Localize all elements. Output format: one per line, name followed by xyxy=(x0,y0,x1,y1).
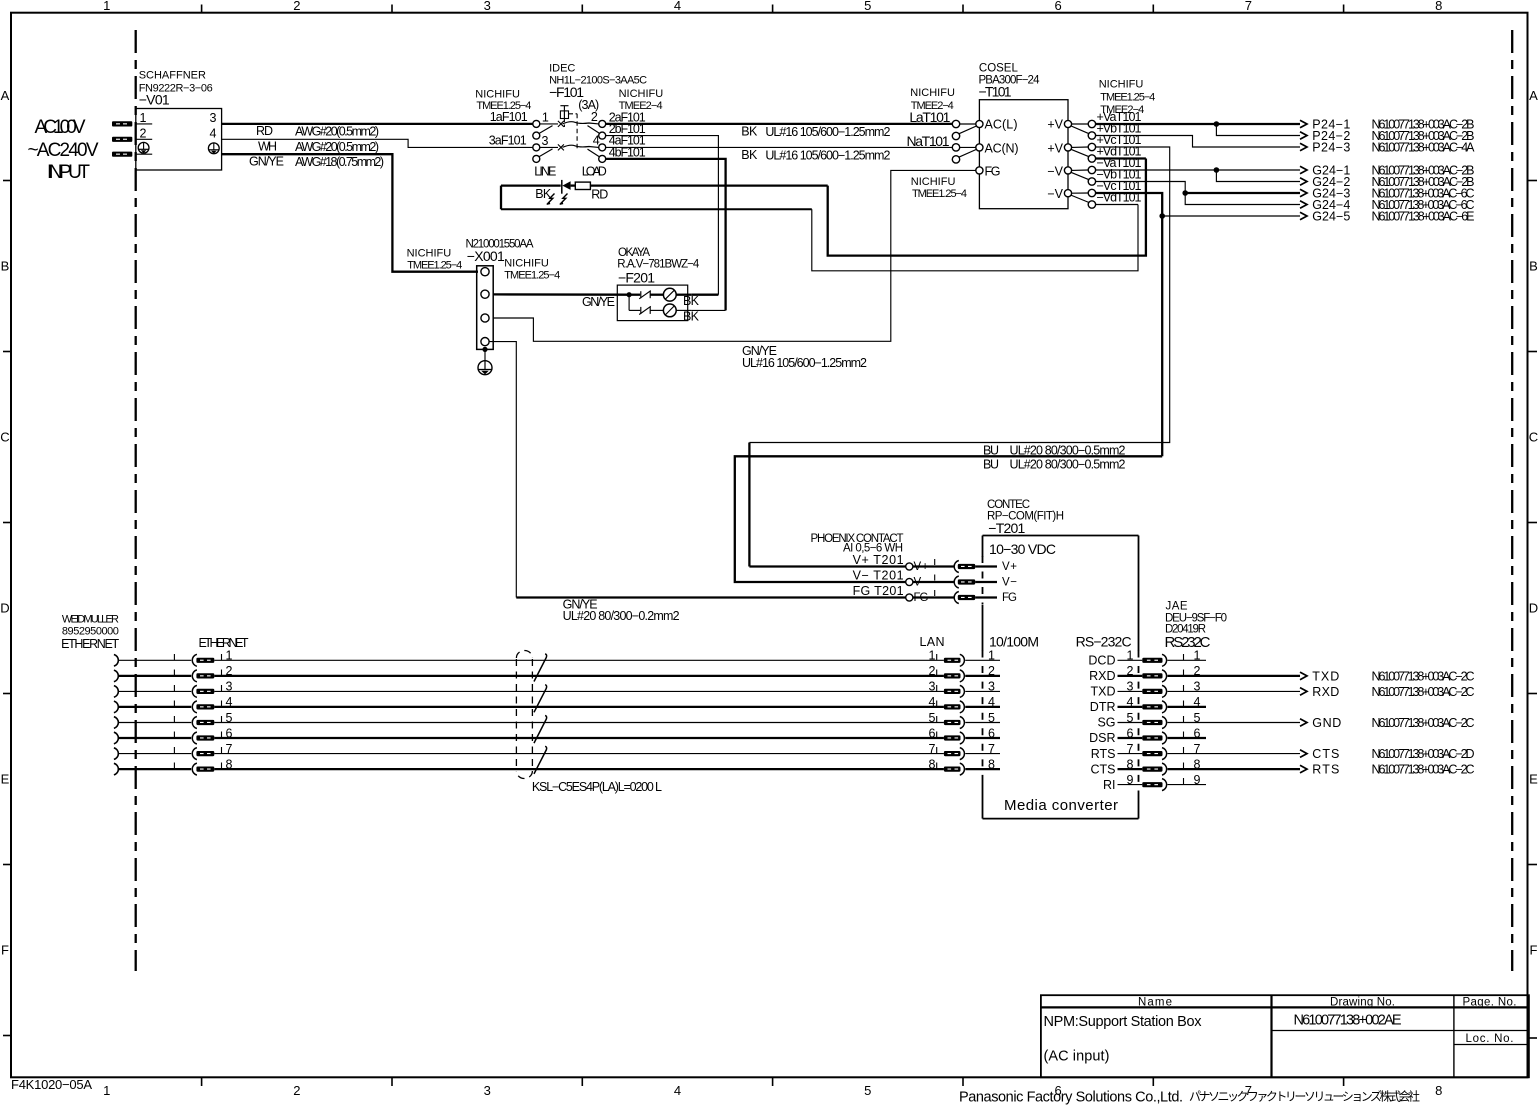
svg-text:RS−232C: RS−232C xyxy=(1076,634,1132,650)
svg-text:2: 2 xyxy=(988,664,995,678)
svg-text:RD: RD xyxy=(256,124,273,138)
node F201 input xyxy=(627,292,632,297)
svg-text:3: 3 xyxy=(210,111,217,125)
svg-text:F4K1020−05A: F4K1020−05A xyxy=(11,1077,92,1092)
wire RTS out xyxy=(1168,768,1301,770)
svg-text:2: 2 xyxy=(293,0,300,13)
svg-text:N610077138+002AE: N610077138+002AE xyxy=(1294,1013,1402,1029)
svg-text:UL#16 105/600−1.25mm2: UL#16 105/600−1.25mm2 xyxy=(742,356,867,370)
svg-text:UL#16 105/600−1.25mm2: UL#16 105/600−1.25mm2 xyxy=(765,148,890,162)
wire -VaT101 to G24-1 xyxy=(1096,169,1300,171)
node G24-3 xyxy=(1182,190,1188,196)
label NICHIFU TMEE1.25-4 at FG xyxy=(911,176,967,200)
wire 2aF101 to LaT101 (BK) xyxy=(606,110,953,139)
svg-text:−F201: −F201 xyxy=(618,270,655,286)
svg-text:DSR: DSR xyxy=(1089,731,1115,745)
svg-text:NICHIFU: NICHIFU xyxy=(911,176,956,188)
svg-text:C: C xyxy=(1529,430,1538,445)
svg-text:E: E xyxy=(1,772,10,787)
svg-text:AC(N): AC(N) xyxy=(985,141,1019,155)
svg-text:IDEC: IDEC xyxy=(549,63,575,75)
svg-text:1: 1 xyxy=(140,111,147,125)
media converter T201 xyxy=(983,499,1139,819)
wire lamp to +VdT101 xyxy=(828,159,1146,256)
node G24-1/G24-2 xyxy=(1214,167,1220,173)
terminal NaT101 xyxy=(907,133,977,163)
RS232 output labels xyxy=(1312,669,1474,776)
ethernet connector WEIDMULLER xyxy=(61,614,249,652)
svg-text:3: 3 xyxy=(484,0,491,13)
svg-text:INPUT: INPUT xyxy=(47,162,90,183)
svg-text:NaT101: NaT101 xyxy=(907,133,950,149)
wire CTS out xyxy=(1168,753,1301,755)
wire X001 pin3 to T101 FG (GN/YE) xyxy=(493,170,976,369)
wire lamp return to -VdT101 xyxy=(812,205,1138,271)
wire -VcT101 to V- (BU) xyxy=(735,193,1162,582)
svg-text:−X001: −X001 xyxy=(467,248,505,264)
power supply T101 xyxy=(976,63,1072,209)
svg-text:1aF101: 1aF101 xyxy=(490,110,528,124)
svg-text:B: B xyxy=(1,259,10,274)
svg-text:B: B xyxy=(1529,259,1538,274)
svg-text:3: 3 xyxy=(484,1083,491,1098)
svg-text:1: 1 xyxy=(929,649,936,663)
svg-text:RXD: RXD xyxy=(1312,685,1339,699)
svg-text:COSEL: COSEL xyxy=(979,63,1019,75)
svg-text:CTS: CTS xyxy=(1091,762,1116,776)
svg-text:NICHIFU: NICHIFU xyxy=(910,87,955,99)
svg-text:2: 2 xyxy=(293,1083,300,1098)
svg-text:FG: FG xyxy=(985,164,1001,178)
svg-text:1: 1 xyxy=(542,111,549,125)
wire branch to G24-2 xyxy=(1216,170,1300,182)
svg-text:1: 1 xyxy=(103,0,110,13)
noise filter V01 xyxy=(136,70,222,171)
svg-text:V− T201: V− T201 xyxy=(853,569,904,583)
svg-text:TXD: TXD xyxy=(1312,669,1339,683)
svg-text:LaT101: LaT101 xyxy=(909,109,950,125)
svg-text:8: 8 xyxy=(988,757,995,771)
LAN pins on T201 xyxy=(920,635,1001,775)
svg-text:V+: V+ xyxy=(1002,561,1017,573)
svg-text:ETHERNET: ETHERNET xyxy=(199,636,249,650)
svg-text:DCD: DCD xyxy=(1088,654,1115,668)
svg-text:E: E xyxy=(1529,772,1538,787)
wire TXD out xyxy=(1168,675,1301,677)
svg-text:TMEE1.25−4: TMEE1.25−4 xyxy=(1100,92,1155,104)
svg-text:WH: WH xyxy=(258,140,277,154)
svg-text:A: A xyxy=(1529,88,1538,103)
svg-text:パナソニック ファクトリーソリューションズ株式会社: パナソニック ファクトリーソリューションズ株式会社 xyxy=(1189,1089,1420,1104)
svg-text:7: 7 xyxy=(988,742,995,756)
svg-text:LAN: LAN xyxy=(920,635,945,649)
svg-text:UL#20 80/300−0.5mm2: UL#20 80/300−0.5mm2 xyxy=(1010,457,1126,471)
svg-text:WEIDMULLER: WEIDMULLER xyxy=(62,614,119,626)
svg-text:5: 5 xyxy=(988,711,995,725)
svg-text:2: 2 xyxy=(140,127,147,141)
svg-text:+V: +V xyxy=(1047,118,1063,132)
svg-text:7: 7 xyxy=(929,742,936,756)
svg-text:RTS: RTS xyxy=(1091,747,1116,761)
svg-text:RI: RI xyxy=(1103,778,1116,792)
svg-text:UL#16 105/600−1.25mm2: UL#16 105/600−1.25mm2 xyxy=(765,125,890,139)
svg-text:RD: RD xyxy=(591,188,608,202)
svg-text:CONTEC: CONTEC xyxy=(987,499,1030,511)
svg-text:DTR: DTR xyxy=(1090,700,1116,714)
svg-text:GN/YE: GN/YE xyxy=(249,155,284,169)
svg-text:5: 5 xyxy=(864,0,871,13)
svg-text:NICHIFU: NICHIFU xyxy=(475,89,520,101)
svg-text:5: 5 xyxy=(864,1083,871,1098)
wire WH (V01 pin4 to breaker 3aF101) xyxy=(222,139,533,154)
svg-text:3aF101: 3aF101 xyxy=(489,133,527,147)
svg-text:ETHERNET: ETHERNET xyxy=(61,637,119,651)
svg-text:3: 3 xyxy=(929,680,936,694)
svg-text:BK: BK xyxy=(741,148,758,162)
svg-text:N610077138+003AC−2C: N610077138+003AC−2C xyxy=(1372,763,1475,777)
RS232 pins on T201 xyxy=(1088,649,1200,792)
wire +VbT101 to P24-3 xyxy=(1096,136,1300,148)
svg-text:N610077138+003AC−2C: N610077138+003AC−2C xyxy=(1372,716,1475,730)
svg-text:3: 3 xyxy=(542,134,549,148)
svg-text:6: 6 xyxy=(988,726,995,740)
wire +VaT101 to P24-1 xyxy=(1096,123,1300,125)
svg-text:RXD: RXD xyxy=(1089,669,1115,683)
svg-text:4bF101: 4bF101 xyxy=(609,145,646,159)
crimp FG xyxy=(913,592,1017,605)
ground symbol X001 xyxy=(478,349,492,374)
ethernet pin arcs xyxy=(114,655,118,775)
svg-text:NICHIFU: NICHIFU xyxy=(1099,79,1144,91)
svg-text:8952950000: 8952950000 xyxy=(62,626,119,638)
svg-text:TMEE1.25−4: TMEE1.25−4 xyxy=(912,188,967,200)
svg-text:−V: −V xyxy=(1047,164,1063,178)
wire X001 pin4 to T201 FG (GN/YE) xyxy=(489,342,906,623)
svg-text:Page. No.: Page. No. xyxy=(1463,997,1517,1009)
svg-text:−V: −V xyxy=(1047,187,1063,201)
wire X001 pin2 to F201 xyxy=(493,293,629,296)
cable bundle marker xyxy=(516,651,662,795)
svg-text:Media converter: Media converter xyxy=(1004,797,1118,814)
svg-text:UL#20 80/300−0.2mm2: UL#20 80/300−0.2mm2 xyxy=(563,609,680,623)
surge absorber F201 xyxy=(582,247,700,324)
crimp V+ xyxy=(913,561,1017,574)
svg-text:Panasonic Factory Solutions Co: Panasonic Factory Solutions Co.,Ltd. xyxy=(959,1090,1183,1105)
svg-text:8: 8 xyxy=(1435,0,1442,13)
svg-text:Drawing No.: Drawing No. xyxy=(1330,997,1395,1009)
svg-text:Name: Name xyxy=(1138,997,1172,1009)
wire G24-5 xyxy=(1162,215,1300,217)
svg-text:6: 6 xyxy=(1054,0,1061,13)
svg-text:BK: BK xyxy=(683,310,700,324)
node P24-1/P24-2 xyxy=(1214,121,1220,127)
svg-text:Loc. No.: Loc. No. xyxy=(1466,1033,1514,1045)
svg-text:NICHIFU: NICHIFU xyxy=(619,88,664,100)
terminal LaT101 xyxy=(909,87,976,140)
wire 4aF101 to NaT101 (BK) xyxy=(606,134,953,163)
svg-text:A: A xyxy=(1,88,10,103)
svg-text:P24−3: P24−3 xyxy=(1312,140,1350,154)
svg-text:−V01: −V01 xyxy=(139,92,170,108)
svg-text:AWG#18(0.75mm2): AWG#18(0.75mm2) xyxy=(295,155,384,169)
svg-text:NICHIFU: NICHIFU xyxy=(407,248,452,260)
svg-text:2: 2 xyxy=(929,664,936,678)
indicator lamp circuit xyxy=(501,180,828,209)
ethernet cable wires to LAN xyxy=(214,660,944,769)
svg-text:BK: BK xyxy=(683,294,700,308)
node X001 earth xyxy=(482,347,487,352)
svg-text:C: C xyxy=(0,430,9,445)
svg-text:(AC input): (AC input) xyxy=(1044,1049,1110,1065)
svg-text:AC100V: AC100V xyxy=(35,117,86,138)
svg-text:4: 4 xyxy=(929,695,936,709)
svg-text:NICHIFU: NICHIFU xyxy=(504,258,549,270)
svg-text:SCHAFFNER: SCHAFFNER xyxy=(139,70,206,82)
svg-text:4: 4 xyxy=(988,695,995,709)
wire -VbT101 to G24-3/G24-4 xyxy=(1096,182,1300,205)
svg-text:RS232C: RS232C xyxy=(1165,634,1211,651)
svg-text:~AC240V: ~AC240V xyxy=(28,140,99,161)
svg-text:GN/YE: GN/YE xyxy=(582,295,615,309)
wire GND out xyxy=(1168,722,1301,724)
svg-text:7: 7 xyxy=(1245,0,1252,13)
svg-text:RTS: RTS xyxy=(1312,763,1339,777)
wire RXD out xyxy=(1168,690,1301,692)
svg-text:FG T201: FG T201 xyxy=(853,584,904,598)
svg-text:G24−5: G24−5 xyxy=(1312,209,1350,223)
svg-text:NPM:Support Station Box: NPM:Support Station Box xyxy=(1044,1014,1203,1030)
T101 output terminals xyxy=(1071,79,1155,209)
svg-text:GND: GND xyxy=(1312,716,1341,730)
svg-text:BK: BK xyxy=(535,187,552,201)
svg-text:AWG#20(0.5mm2): AWG#20(0.5mm2) xyxy=(295,140,379,154)
svg-text:BK: BK xyxy=(741,124,758,138)
svg-text:TMEE1.25−4: TMEE1.25−4 xyxy=(504,269,560,281)
svg-text:AWG#20(0.5mm2): AWG#20(0.5mm2) xyxy=(295,125,379,139)
crimp V- xyxy=(913,576,1017,589)
wire 4bF101 to F201 xyxy=(606,145,726,310)
svg-text:D: D xyxy=(0,601,9,616)
ethernet crimps with numbers xyxy=(174,649,232,776)
output arrows P24/G24 xyxy=(1300,120,1307,220)
ethernet wires rows 1-8 xyxy=(118,660,191,769)
svg-text:4: 4 xyxy=(674,0,681,13)
wire RD (V01 pin3 to breaker 1aF101) xyxy=(222,124,533,139)
wire -VdT101 (to lamp return) xyxy=(1096,204,1138,206)
svg-text:1: 1 xyxy=(103,1083,110,1098)
svg-text:D: D xyxy=(1529,601,1538,616)
wire GN/YE (V01 earth to X001 pin1) xyxy=(222,154,478,272)
svg-text:6: 6 xyxy=(929,726,936,740)
svg-text:8: 8 xyxy=(1435,1083,1442,1098)
wire 2bF101 to F201 xyxy=(606,122,719,295)
svg-text:V+ T201: V+ T201 xyxy=(853,553,904,567)
RS232 output arrows xyxy=(1300,672,1307,773)
svg-text:LOAD: LOAD xyxy=(582,164,607,178)
circuit breaker F101 xyxy=(475,63,663,179)
svg-text:N610077138+003AC−6E: N610077138+003AC−6E xyxy=(1372,209,1475,223)
svg-text:LINE: LINE xyxy=(534,164,556,178)
svg-text:V−: V− xyxy=(1002,577,1017,589)
svg-text:AC(L): AC(L) xyxy=(985,118,1018,132)
svg-text:1: 1 xyxy=(988,649,995,663)
ground symbol V01 right xyxy=(208,143,219,154)
svg-text:JAE: JAE xyxy=(1166,601,1188,613)
svg-text:FG: FG xyxy=(1002,592,1017,604)
svg-text:SG: SG xyxy=(1097,716,1115,730)
svg-text:4: 4 xyxy=(674,1083,681,1098)
svg-text:N610077138+003AC−2D: N610077138+003AC−2D xyxy=(1372,747,1475,761)
svg-text:F: F xyxy=(1530,943,1538,958)
svg-text:CTS: CTS xyxy=(1312,747,1339,761)
wire branch to P24-2 xyxy=(1216,124,1300,136)
title block xyxy=(959,995,1529,1105)
RS232 stub wires xyxy=(1168,660,1207,784)
wire +VdT101 (to lamp) xyxy=(1096,157,1146,159)
svg-text:3: 3 xyxy=(988,680,995,694)
svg-text:N610077138+003AC−2C: N610077138+003AC−2C xyxy=(1372,685,1475,699)
svg-text:10−30 VDC: 10−30 VDC xyxy=(989,541,1056,557)
svg-text:KSL−C5ES4P(LA)L=0200 L: KSL−C5ES4P(LA)L=0200 L xyxy=(532,780,662,794)
ground symbol V01 left xyxy=(138,142,149,153)
output labels P24/G24 xyxy=(1312,117,1475,223)
svg-text:4: 4 xyxy=(210,126,217,140)
svg-text:TMEE1.25−4: TMEE1.25−4 xyxy=(407,260,462,272)
svg-text:+V: +V xyxy=(1047,141,1063,155)
svg-text:BU: BU xyxy=(983,457,999,471)
terminal block X001 xyxy=(407,239,561,350)
svg-text:OKAYA: OKAYA xyxy=(618,247,650,259)
svg-text:−T201: −T201 xyxy=(988,520,1025,536)
svg-text:5: 5 xyxy=(929,711,936,725)
svg-text:2: 2 xyxy=(591,110,598,124)
svg-text:N610077138+003AC−4A: N610077138+003AC−4A xyxy=(1372,140,1476,154)
node G24-5 branch xyxy=(1159,213,1165,219)
phoenix contact terminals V+/V-/FG xyxy=(811,533,935,604)
AC input connector xyxy=(28,117,133,183)
svg-text:10/100M: 10/100M xyxy=(989,634,1039,650)
svg-text:N610077138+003AC−2C: N610077138+003AC−2C xyxy=(1372,669,1475,683)
RS232 connector JAE xyxy=(1165,601,1228,652)
svg-text:−T101: −T101 xyxy=(979,84,1012,100)
wire +VcT101 to V+ (BU) xyxy=(749,147,1169,567)
svg-text:8: 8 xyxy=(929,757,936,771)
svg-text:TXD: TXD xyxy=(1091,685,1116,699)
svg-text:F: F xyxy=(1,943,9,958)
